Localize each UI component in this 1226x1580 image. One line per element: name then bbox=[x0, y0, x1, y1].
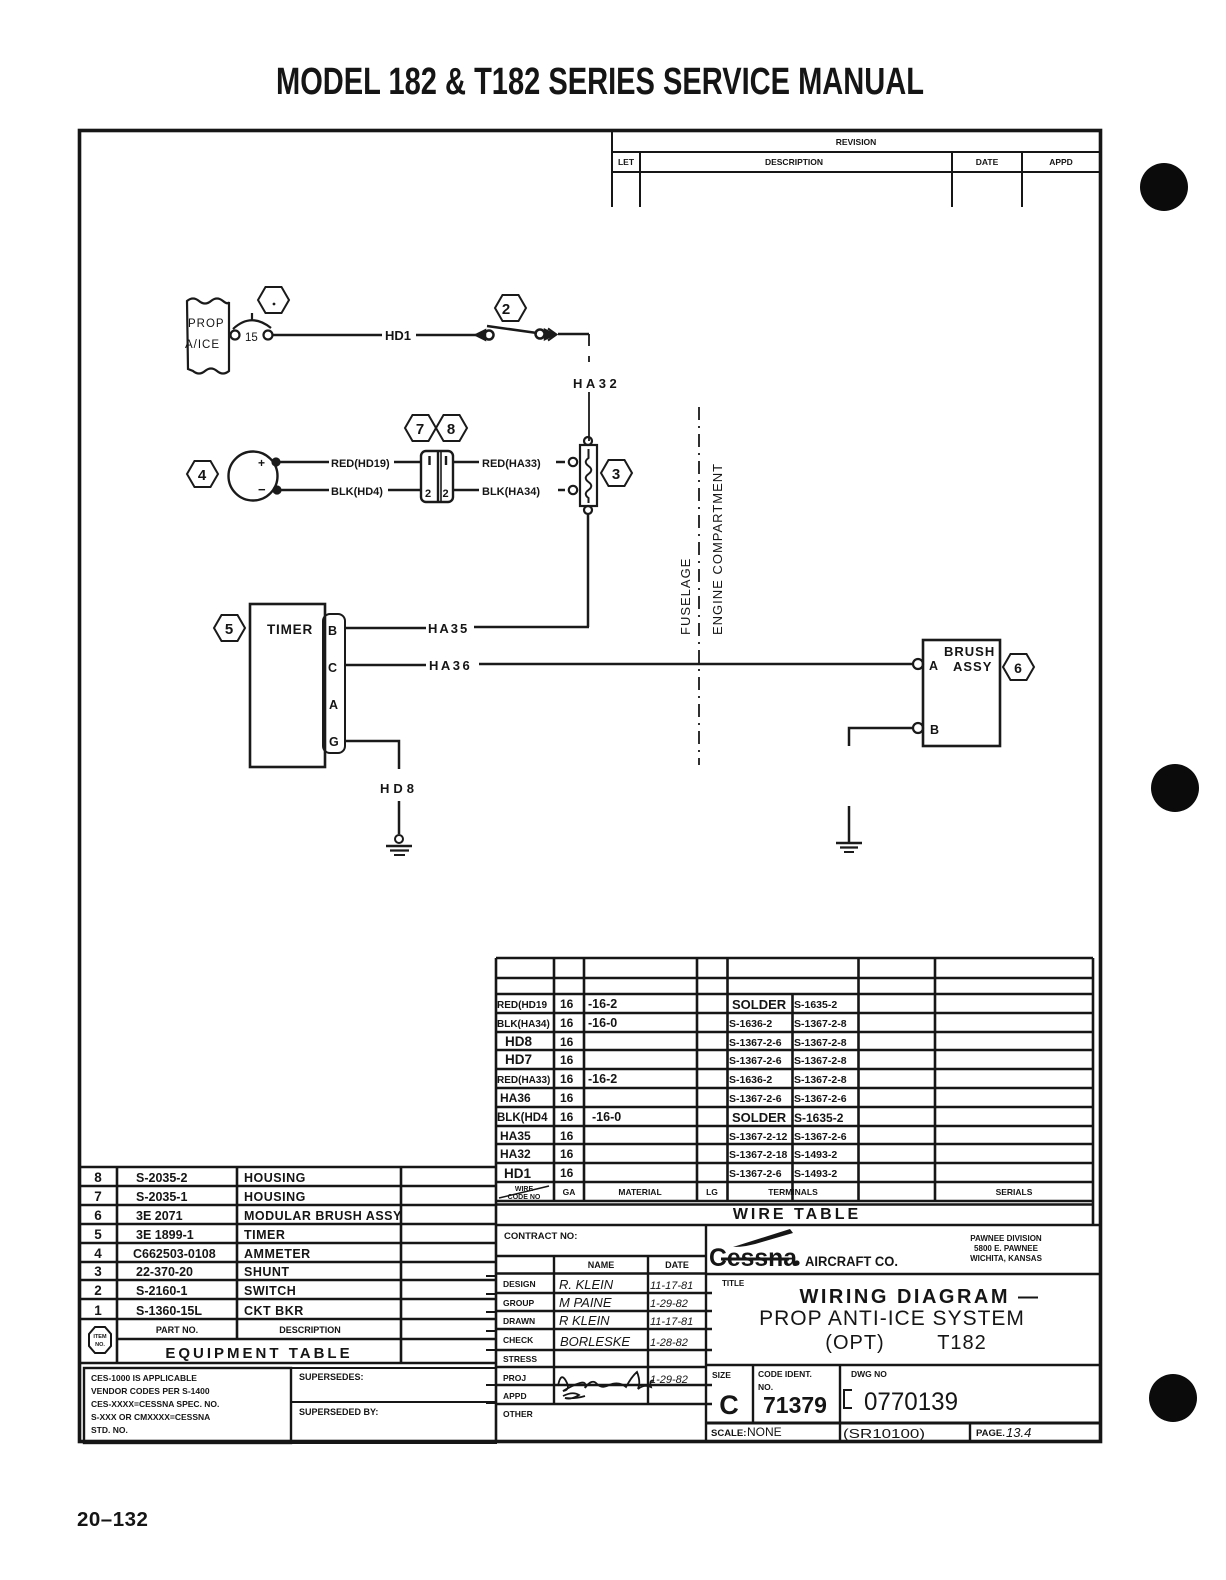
svg-text:S-1367-2-6: S-1367-2-6 bbox=[729, 1093, 782, 1105]
svg-text:PROP ANTI-ICE SYSTEM: PROP ANTI-ICE SYSTEM bbox=[759, 1307, 1025, 1330]
svg-text:HOUSING: HOUSING bbox=[244, 1190, 306, 1204]
svg-text:2: 2 bbox=[502, 301, 510, 318]
svg-text:S-1367-2-6: S-1367-2-6 bbox=[729, 1168, 782, 1180]
callout hexagon 2 bbox=[495, 295, 526, 321]
svg-text:S-1493-2: S-1493-2 bbox=[794, 1168, 837, 1180]
svg-text:GA: GA bbox=[563, 1187, 576, 1197]
svg-text:DRAWN: DRAWN bbox=[503, 1316, 535, 1326]
svg-text:SERIALS: SERIALS bbox=[996, 1187, 1033, 1197]
svg-text:HA35: HA35 bbox=[428, 621, 469, 636]
circuit breaker CB1 (item 1) bbox=[231, 313, 273, 340]
svg-text:3: 3 bbox=[94, 1264, 102, 1279]
svg-text:APPD: APPD bbox=[503, 1391, 527, 1401]
svg-text:2: 2 bbox=[425, 488, 431, 500]
svg-text:SIZE: SIZE bbox=[712, 1370, 731, 1380]
svg-text:WICHITA, KANSAS: WICHITA, KANSAS bbox=[970, 1254, 1043, 1263]
svg-text:SUPERSEDED BY:: SUPERSEDED BY: bbox=[299, 1407, 378, 1417]
svg-text:71379: 71379 bbox=[763, 1392, 827, 1418]
svg-text:HA36: HA36 bbox=[500, 1091, 531, 1105]
svg-text:S-1636-2: S-1636-2 bbox=[729, 1074, 772, 1086]
svg-text:NO.: NO. bbox=[758, 1382, 773, 1392]
wire RED(HA33) bbox=[453, 461, 565, 464]
wire RED(HD19) bbox=[279, 461, 421, 464]
svg-text:LET: LET bbox=[618, 157, 635, 167]
svg-text:16: 16 bbox=[560, 1166, 574, 1180]
svg-text:S-1367-2-8: S-1367-2-8 bbox=[794, 1055, 847, 1067]
svg-text:TITLE: TITLE bbox=[722, 1279, 745, 1288]
svg-text:−: − bbox=[258, 482, 266, 497]
svg-text:CODE IDENT.: CODE IDENT. bbox=[758, 1369, 812, 1379]
svg-text:DATE: DATE bbox=[665, 1260, 689, 1270]
svg-text:STD. NO.: STD. NO. bbox=[91, 1425, 128, 1435]
svg-text:PROJ: PROJ bbox=[503, 1373, 526, 1383]
svg-text:11-17-81: 11-17-81 bbox=[650, 1280, 693, 1292]
equipment table header: item no symbol bbox=[89, 1327, 111, 1353]
svg-text:6: 6 bbox=[1014, 660, 1022, 676]
svg-text:HD8: HD8 bbox=[380, 781, 418, 796]
svg-text:7: 7 bbox=[94, 1189, 102, 1204]
ammeter M1 (item 4) bbox=[229, 452, 278, 501]
svg-text:16: 16 bbox=[560, 1129, 574, 1143]
svg-text:S-2035-1: S-2035-1 bbox=[136, 1190, 187, 1204]
wire from shunt bottom to HA35 corner bbox=[587, 514, 590, 627]
svg-text:-16-2: -16-2 bbox=[588, 1072, 617, 1086]
svg-text:PAWNEE DIVISION: PAWNEE DIVISION bbox=[970, 1234, 1042, 1243]
callout hexagon 6 bbox=[1003, 654, 1034, 680]
svg-text:DATE: DATE bbox=[976, 157, 999, 167]
svg-text:RED(HA33): RED(HA33) bbox=[497, 1075, 550, 1086]
svg-text:16: 16 bbox=[560, 1072, 574, 1086]
svg-text:8: 8 bbox=[447, 421, 455, 438]
svg-text:HD1: HD1 bbox=[504, 1166, 531, 1181]
svg-text:S-1367-2-18: S-1367-2-18 bbox=[729, 1149, 788, 1161]
svg-text:PART NO.: PART NO. bbox=[156, 1325, 198, 1335]
appd initials bbox=[563, 1393, 585, 1398]
svg-text:NAME: NAME bbox=[588, 1260, 615, 1270]
svg-text:2: 2 bbox=[443, 488, 449, 500]
svg-text:HD7: HD7 bbox=[505, 1052, 532, 1067]
svg-text:S-1367-2-6: S-1367-2-6 bbox=[794, 1131, 847, 1143]
svg-text:T182: T182 bbox=[937, 1332, 987, 1354]
svg-text:2: 2 bbox=[94, 1283, 102, 1298]
svg-text:13.4: 13.4 bbox=[1006, 1425, 1031, 1440]
revision table bbox=[612, 130, 1100, 207]
callout hexagon 5 bbox=[214, 615, 245, 641]
svg-text:WIRE TABLE: WIRE TABLE bbox=[733, 1206, 861, 1223]
svg-text:BLK(HD4: BLK(HD4 bbox=[497, 1112, 548, 1124]
svg-text:EQUIPMENT TABLE: EQUIPMENT TABLE bbox=[165, 1345, 352, 1362]
svg-text:TIMER: TIMER bbox=[244, 1228, 285, 1242]
svg-text:ASSY: ASSY bbox=[953, 659, 992, 674]
svg-text:S-1367-2-8: S-1367-2-8 bbox=[794, 1018, 847, 1030]
svg-text:DESIGN: DESIGN bbox=[503, 1279, 536, 1289]
svg-text:SUPERSEDES:: SUPERSEDES: bbox=[299, 1372, 364, 1382]
svg-text:CES-1000 IS APPLICABLE: CES-1000 IS APPLICABLE bbox=[91, 1373, 197, 1383]
connector P1/J1 (items 7,8) bbox=[421, 451, 453, 502]
svg-text:HA32: HA32 bbox=[573, 376, 620, 391]
wire HD1 bbox=[273, 334, 477, 337]
svg-text:11-17-81: 11-17-81 bbox=[650, 1316, 693, 1328]
binder hole dot middle bbox=[1151, 764, 1199, 812]
svg-text:DWG NO: DWG NO bbox=[851, 1369, 887, 1379]
svg-text:16: 16 bbox=[560, 1053, 574, 1067]
callout hexagon 7 bbox=[405, 415, 436, 441]
svg-text:AIRCRAFT CO.: AIRCRAFT CO. bbox=[805, 1254, 898, 1269]
wire BLK(HA34) bbox=[453, 489, 565, 492]
svg-text:C662503-0108: C662503-0108 bbox=[133, 1247, 216, 1261]
binder hole dot top bbox=[1140, 163, 1188, 211]
vendor code notes box bbox=[84, 1368, 291, 1443]
svg-text:PAGE.: PAGE. bbox=[976, 1428, 1005, 1439]
svg-text:3E 2071: 3E 2071 bbox=[136, 1209, 183, 1223]
svg-text:CHECK: CHECK bbox=[503, 1335, 534, 1345]
fuselage / engine compartment split line bbox=[698, 407, 700, 765]
division address bbox=[970, 1234, 1043, 1263]
svg-text:HA36: HA36 bbox=[429, 658, 472, 673]
svg-text:-16-0: -16-0 bbox=[588, 1016, 617, 1030]
svg-text:REVISION: REVISION bbox=[836, 137, 877, 147]
svg-text:DESCRIPTION: DESCRIPTION bbox=[279, 1325, 341, 1335]
svg-text:A: A bbox=[929, 659, 938, 673]
equipment table grid bbox=[81, 1167, 497, 1363]
svg-text:MATERIAL: MATERIAL bbox=[618, 1187, 661, 1197]
svg-text:-16-0: -16-0 bbox=[592, 1110, 621, 1124]
svg-text:C: C bbox=[719, 1390, 739, 1420]
svg-text:BLK(HA34): BLK(HA34) bbox=[497, 1019, 550, 1030]
svg-text:M PAINE: M PAINE bbox=[559, 1295, 612, 1310]
svg-text:S-1367-2-6: S-1367-2-6 bbox=[794, 1093, 847, 1105]
callout hexagon 4 bbox=[187, 461, 218, 487]
svg-text:R KLEIN: R KLEIN bbox=[559, 1313, 610, 1328]
wire table grid bbox=[496, 958, 1100, 1443]
svg-text:S-1367-2-8: S-1367-2-8 bbox=[794, 1074, 847, 1086]
brush assembly (item 6) bbox=[923, 640, 1000, 746]
svg-text:FUSELAGE: FUSELAGE bbox=[678, 558, 693, 635]
svg-text:B: B bbox=[328, 624, 337, 638]
svg-text:16: 16 bbox=[560, 1110, 574, 1124]
svg-text:VENDOR CODES PER S-1400: VENDOR CODES PER S-1400 bbox=[91, 1386, 210, 1396]
svg-text:S-1360-15L: S-1360-15L bbox=[136, 1304, 202, 1318]
svg-text:B: B bbox=[930, 723, 939, 737]
svg-text:(SR10100): (SR10100) bbox=[843, 1426, 925, 1441]
svg-text:16: 16 bbox=[560, 1035, 574, 1049]
svg-text:DESCRIPTION: DESCRIPTION bbox=[765, 157, 823, 167]
svg-text:4: 4 bbox=[198, 467, 207, 484]
svg-text:C: C bbox=[328, 661, 337, 675]
switch S1 (item 2) bbox=[476, 326, 557, 341]
svg-text:CKT BKR: CKT BKR bbox=[244, 1304, 304, 1318]
svg-text:S-2035-2: S-2035-2 bbox=[136, 1171, 187, 1185]
svg-text:S-1367-2-6: S-1367-2-6 bbox=[729, 1037, 782, 1049]
equipment table item numbers bbox=[94, 1170, 102, 1318]
svg-text:0770139: 0770139 bbox=[864, 1388, 958, 1416]
wire table rows bbox=[497, 1000, 550, 1181]
svg-text:GROUP: GROUP bbox=[503, 1298, 535, 1308]
svg-text:-16-2: -16-2 bbox=[588, 997, 617, 1011]
approvals dates bbox=[650, 1280, 693, 1386]
svg-text:APPD: APPD bbox=[1049, 157, 1073, 167]
svg-text:OTHER: OTHER bbox=[503, 1409, 533, 1419]
approvals names bbox=[559, 1277, 630, 1349]
svg-text:1-28-82: 1-28-82 bbox=[650, 1337, 688, 1349]
svg-text:S-XXX OR CMXXXX=CESSNA: S-XXX OR CMXXXX=CESSNA bbox=[91, 1412, 210, 1422]
svg-text:G: G bbox=[329, 735, 339, 749]
svg-text:S-1635-2: S-1635-2 bbox=[794, 999, 837, 1011]
svg-text:R. KLEIN: R. KLEIN bbox=[559, 1277, 614, 1292]
brush assy pin A bbox=[913, 659, 923, 669]
shunt R1 (item 3) bbox=[569, 437, 597, 514]
title block grid bbox=[496, 1225, 1100, 1443]
svg-text:S-1367-2-12: S-1367-2-12 bbox=[729, 1131, 788, 1143]
supersedes box bbox=[291, 1368, 496, 1402]
connector pin slots 1-1 bbox=[430, 456, 447, 465]
svg-text:5: 5 bbox=[94, 1227, 102, 1242]
svg-text:BORLESKE: BORLESKE bbox=[560, 1334, 630, 1349]
svg-text:TERMINALS: TERMINALS bbox=[768, 1187, 818, 1197]
svg-text:HD8: HD8 bbox=[505, 1034, 532, 1049]
svg-text:MODULAR BRUSH ASSY: MODULAR BRUSH ASSY bbox=[244, 1209, 402, 1223]
svg-text:7: 7 bbox=[416, 421, 424, 438]
svg-text:(OPT): (OPT) bbox=[825, 1332, 884, 1354]
svg-text:RED(HD19: RED(HD19 bbox=[497, 1000, 547, 1011]
wire HA35 bbox=[345, 627, 589, 628]
callout 1 mark bbox=[273, 303, 276, 306]
svg-text:ITEM: ITEM bbox=[93, 1334, 107, 1340]
svg-text:CONTRACT NO:: CONTRACT NO: bbox=[504, 1231, 577, 1242]
svg-text:4: 4 bbox=[94, 1246, 102, 1261]
approvals rows labels bbox=[503, 1279, 537, 1419]
page number bbox=[77, 1508, 148, 1531]
ground at brush assy bbox=[836, 843, 862, 852]
superseded by box bbox=[291, 1402, 496, 1443]
svg-text:S-1636-2: S-1636-2 bbox=[729, 1018, 772, 1030]
svg-text:AMMETER: AMMETER bbox=[244, 1247, 311, 1261]
svg-text:LG: LG bbox=[706, 1187, 718, 1197]
svg-text:S-2160-1: S-2160-1 bbox=[136, 1284, 187, 1298]
wire from brush pin B to ground bbox=[849, 728, 913, 842]
svg-text:A: A bbox=[329, 698, 338, 712]
svg-text:5800 E. PAWNEE: 5800 E. PAWNEE bbox=[974, 1244, 1039, 1253]
callout hexagon 8 bbox=[436, 415, 467, 441]
svg-text:SWITCH: SWITCH bbox=[244, 1284, 296, 1298]
svg-text:BRUSH: BRUSH bbox=[944, 644, 995, 659]
wire from switch to HA32 corner bbox=[558, 333, 589, 336]
svg-text:SOLDER: SOLDER bbox=[732, 997, 787, 1012]
callout hexagon 1 bbox=[258, 287, 289, 313]
ground at HD8 bbox=[386, 835, 412, 855]
svg-text:SHUNT: SHUNT bbox=[244, 1265, 290, 1279]
equipment table part numbers bbox=[133, 1171, 216, 1318]
svg-text:22-370-20: 22-370-20 bbox=[136, 1265, 193, 1279]
svg-text:HA35: HA35 bbox=[500, 1129, 531, 1143]
svg-text:1-29-82: 1-29-82 bbox=[650, 1298, 688, 1310]
svg-text:15: 15 bbox=[245, 332, 258, 344]
svg-text:HD1: HD1 bbox=[385, 328, 411, 343]
svg-text:HA32: HA32 bbox=[500, 1147, 531, 1161]
svg-text:ENGINE COMPARTMENT: ENGINE COMPARTMENT bbox=[710, 463, 725, 635]
wire HA36 bbox=[345, 664, 913, 665]
svg-text:S-1367-2-6: S-1367-2-6 bbox=[729, 1055, 782, 1067]
svg-text:BLK(HD4): BLK(HD4) bbox=[331, 486, 383, 498]
wire BLK(HD4) bbox=[280, 489, 421, 492]
wire HA32 vertical bbox=[588, 334, 590, 441]
wire HD8 from timer G bbox=[345, 741, 399, 834]
svg-text:SOLDER: SOLDER bbox=[732, 1110, 787, 1125]
svg-text:16: 16 bbox=[560, 1091, 574, 1105]
svg-text:16: 16 bbox=[560, 1016, 574, 1030]
svg-text:3E 1899-1: 3E 1899-1 bbox=[136, 1228, 194, 1242]
svg-text:CES-XXXX=CESSNA SPEC. NO.: CES-XXXX=CESSNA SPEC. NO. bbox=[91, 1399, 219, 1409]
drawing border frame bbox=[80, 131, 1101, 1442]
svg-text:NO.: NO. bbox=[95, 1342, 105, 1348]
svg-text:RED(HD19): RED(HD19) bbox=[331, 458, 390, 470]
proj signature bbox=[558, 1372, 654, 1391]
svg-text:+: + bbox=[258, 456, 265, 470]
svg-text:HOUSING: HOUSING bbox=[244, 1171, 306, 1185]
brush assy pin B bbox=[913, 723, 923, 733]
svg-text:S-1367-2-8: S-1367-2-8 bbox=[794, 1037, 847, 1049]
svg-text:3: 3 bbox=[612, 466, 620, 483]
svg-text:16: 16 bbox=[560, 997, 574, 1011]
binder hole dot bottom bbox=[1149, 1374, 1197, 1422]
timer U1 (item 5) bbox=[250, 604, 345, 767]
Cessna logo bbox=[709, 1229, 898, 1272]
svg-text:PROP: PROP bbox=[188, 318, 225, 330]
svg-text:NONE: NONE bbox=[747, 1425, 782, 1439]
svg-text:1-29-82: 1-29-82 bbox=[650, 1374, 688, 1386]
svg-text:STRESS: STRESS bbox=[503, 1354, 537, 1364]
svg-text:SCALE:: SCALE: bbox=[711, 1428, 746, 1439]
equipment table descriptions bbox=[244, 1171, 402, 1318]
svg-text:S-1635-2: S-1635-2 bbox=[794, 1111, 844, 1125]
svg-text:S-1493-2: S-1493-2 bbox=[794, 1149, 837, 1161]
wire table header row bbox=[508, 1186, 1033, 1201]
callout hexagon 3 bbox=[601, 460, 632, 486]
svg-text:RED(HA33): RED(HA33) bbox=[482, 458, 541, 470]
svg-text:5: 5 bbox=[225, 621, 233, 638]
svg-text:16: 16 bbox=[560, 1147, 574, 1161]
svg-text:MODEL 182 & T182 SERIES SERVIC: MODEL 182 & T182 SERIES SERVICE MANUAL bbox=[276, 61, 924, 103]
svg-text:6: 6 bbox=[94, 1208, 102, 1223]
circuit breaker panel box PROP A/ICE bbox=[187, 299, 229, 374]
svg-text:A/ICE: A/ICE bbox=[185, 339, 220, 351]
row tick marks bbox=[486, 1276, 495, 1403]
svg-text:TIMER: TIMER bbox=[267, 622, 313, 637]
svg-text:20–132: 20–132 bbox=[77, 1508, 148, 1531]
svg-text:BLK(HA34): BLK(HA34) bbox=[482, 486, 540, 498]
svg-text:8: 8 bbox=[94, 1170, 102, 1185]
svg-text:1: 1 bbox=[94, 1303, 102, 1318]
page heading bbox=[276, 61, 924, 103]
svg-text:WIRING DIAGRAM —: WIRING DIAGRAM — bbox=[799, 1286, 1040, 1308]
